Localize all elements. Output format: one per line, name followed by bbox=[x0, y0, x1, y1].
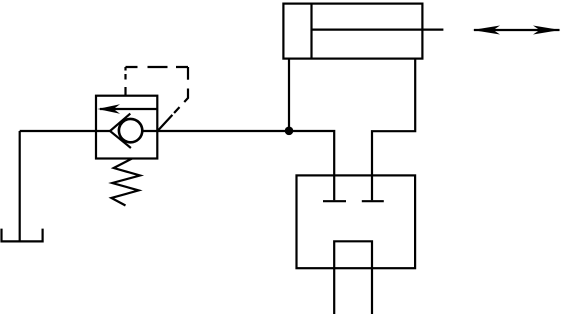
valve block B1 bbox=[297, 175, 416, 268]
plugged port left bbox=[323, 200, 346, 202]
check valve seat bbox=[110, 114, 131, 148]
wire: drain lines bbox=[334, 241, 372, 314]
wire: main line right bbox=[141, 130, 289, 132]
tank bbox=[2, 229, 43, 242]
wire: junction to valve block bbox=[289, 131, 334, 200]
cylinder C1 piston bbox=[310, 4, 312, 59]
wire: tank riser bbox=[19, 131, 21, 241]
wire: cylinder rod-end line bbox=[372, 59, 415, 201]
motion arrow (double-headed) bbox=[472, 26, 560, 35]
wire: main line left bbox=[20, 130, 110, 132]
pilot line (dashed) bbox=[126, 67, 189, 131]
plugged port right bbox=[362, 200, 384, 202]
wire: cylinder cap-end line bbox=[288, 59, 290, 131]
cylinder C1 piston rod bbox=[312, 29, 444, 31]
valve V1 body bbox=[96, 96, 157, 159]
junction node bbox=[285, 127, 294, 136]
cylinder C1 body bbox=[283, 4, 422, 59]
check valve poppet bbox=[119, 119, 142, 142]
valve V1 free-flow arrow bbox=[98, 104, 158, 114]
spring bbox=[111, 159, 140, 206]
